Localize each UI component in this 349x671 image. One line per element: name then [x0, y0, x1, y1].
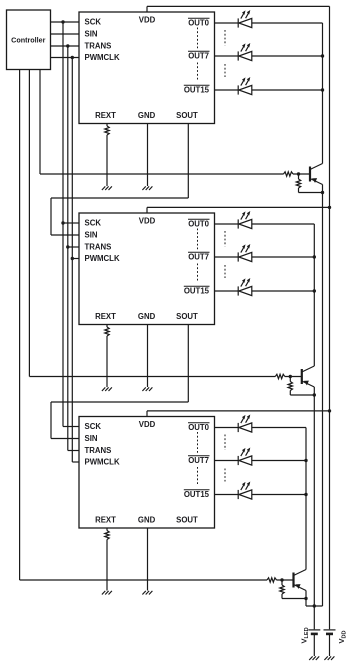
wire SOUT2 to SIN3 vertical [50, 402, 52, 439]
svg-text:OUT7: OUT7 [188, 252, 209, 261]
wire Rbe2 down [289, 391, 291, 396]
wire Q1 emitter down [322, 185, 324, 607]
svg-text:REXT: REXT [95, 312, 116, 321]
svg-text:VLED: VLED [300, 627, 311, 643]
transistor Q3 (PNP) [294, 570, 307, 591]
svg-text:OUT0: OUT0 [188, 18, 209, 27]
wire U1 GND [147, 124, 149, 187]
svg-text:OUT7: OUT7 [188, 51, 209, 60]
wire U3 VDD riser [146, 411, 148, 417]
wire LED D22 anode to rail [252, 290, 314, 292]
wire VDD source to ground [329, 635, 331, 656]
svg-text:PWMCLK: PWMCLK [85, 458, 120, 467]
wire emitter join bar [306, 605, 323, 607]
U3 ellipsis OUT7-OUT15 [197, 467, 199, 486]
LED column ellipsis 2a [224, 231, 226, 247]
U3 OUT0 overline [188, 422, 210, 424]
LED column ellipsis 3b [224, 469, 226, 482]
U1 OUT0 overline [188, 17, 210, 19]
resistor Rbe2 [288, 382, 292, 391]
wire base drive Q3 [20, 579, 267, 581]
wire node to Rbe3 [281, 580, 283, 585]
wire U1 REXT [106, 124, 108, 127]
LED-driver U1 box [79, 12, 215, 124]
svg-text:REXT: REXT [95, 516, 116, 525]
ground U3 GND [142, 591, 145, 595]
LED column ellipsis 3a [224, 435, 226, 451]
wire Rb1 to base [293, 173, 310, 175]
resistor R3ext [105, 531, 109, 540]
svg-text:TRANS: TRANS [85, 446, 112, 455]
node PWMCLK bus junction [71, 56, 74, 59]
wire R1ext to ground [106, 135, 108, 186]
svg-text:SOUT: SOUT [176, 312, 198, 321]
node PWMCLK junction U2 [71, 257, 74, 260]
LED D11 (OUT7) [238, 43, 252, 61]
U2 ellipsis OUT7-OUT15 [197, 264, 199, 283]
wire Rbe2 to emitter [290, 394, 314, 396]
wire U1 VDD riser [146, 6, 148, 12]
wire LED anode rail stage1 [322, 23, 324, 164]
wire Rbe1 down [298, 188, 300, 193]
wire U1 OUT0 to LED [215, 22, 239, 24]
node emitter join [313, 604, 316, 607]
ground U1 GND [142, 186, 145, 190]
svg-text:Controller: Controller [11, 35, 46, 44]
transistor Q2 (PNP) [302, 366, 315, 387]
ground VLED [309, 656, 312, 660]
node VDD rail junction 3 [328, 409, 331, 412]
wire controller TRANS to U1 [51, 45, 80, 47]
U3 OUT7 overline [188, 455, 210, 457]
svg-text:PWMCLK: PWMCLK [85, 53, 120, 62]
wire U2 VDD to rail [147, 206, 330, 208]
wire controller base-drive 2 vertical [28, 70, 30, 377]
wire base drive Q2 [29, 376, 275, 378]
wire U2 OUT7 to LED [215, 256, 239, 258]
controller U0 box [7, 10, 51, 70]
svg-text:VDD: VDD [139, 16, 156, 25]
battery VLED source [308, 630, 320, 634]
wire node to Rbe2 [289, 377, 291, 382]
wire U1 SOUT down [187, 124, 189, 199]
svg-text:SOUT: SOUT [176, 516, 198, 525]
wire Rbe3 down [281, 594, 283, 599]
wire R3ext to ground [106, 540, 108, 591]
wire Rb2 to base [285, 376, 302, 378]
node emitter junction Q3 [304, 597, 307, 600]
wire LED D32 anode to rail [252, 494, 306, 496]
wire controller SCK to U1 [51, 21, 80, 23]
LED D31 (OUT7) [238, 448, 252, 466]
svg-text:VDD: VDD [139, 217, 156, 226]
LED D30 (OUT0) [238, 415, 252, 433]
wire U2 VDD riser [146, 207, 148, 213]
node emitter junction Q2 [313, 393, 316, 396]
wire U3 OUT7 to LED [215, 460, 239, 462]
node base Q1 [297, 172, 300, 175]
wire SCK stub U3 [63, 426, 79, 428]
svg-text:TRANS: TRANS [85, 42, 112, 51]
LED column ellipsis 1a [224, 30, 226, 46]
svg-text:GND: GND [138, 111, 156, 120]
ground VDD [324, 656, 327, 660]
svg-text:OUT0: OUT0 [188, 423, 209, 432]
resistor Rb1 [284, 172, 294, 176]
wire Rbe3 to emitter [282, 598, 306, 600]
resistor Rb3 [267, 578, 277, 582]
wire LED D20 anode to rail [252, 223, 314, 225]
U2 ellipsis OUT0-OUT7 [197, 229, 199, 251]
svg-text:REXT: REXT [95, 111, 116, 120]
wire LED anode rail stage2 [313, 224, 315, 366]
ground U2 REXT [102, 387, 105, 391]
node VDD rail junction 2 [328, 206, 331, 209]
wire U3 OUT15 to LED [215, 494, 239, 496]
svg-text:TRANS: TRANS [85, 243, 112, 252]
svg-text:SIN: SIN [85, 231, 98, 240]
node anode rail junction OUT7 stage2 [313, 255, 316, 258]
wire U3 OUT0 to LED [215, 427, 239, 429]
U1 OUT7 overline [188, 50, 210, 52]
wire SIN stub U2 [51, 234, 79, 236]
node anode rail junction OUT15 stage1 [321, 88, 324, 91]
wire to VLED source [313, 606, 315, 629]
svg-text:SCK: SCK [85, 219, 102, 228]
U3 ellipsis OUT0-OUT7 [197, 432, 199, 454]
node base Q2 [289, 375, 292, 378]
battery VDD source [324, 630, 336, 634]
wire VDD rail [329, 6, 331, 629]
resistor R2ext [105, 327, 109, 336]
svg-text:SIN: SIN [85, 434, 98, 443]
svg-text:PWMCLK: PWMCLK [85, 254, 120, 263]
wire VLED source to ground [313, 635, 315, 656]
node TRANS bus junction [66, 44, 69, 47]
node anode rail junction OUT7 stage1 [321, 54, 324, 57]
wire controller PWMCLK to U1 [51, 57, 80, 59]
LED column ellipsis 2b [224, 265, 226, 278]
LED-driver U2 box [79, 213, 215, 325]
wire U2 GND [147, 325, 149, 388]
wire PWMCLK bus vertical [71, 58, 73, 463]
LED D21 (OUT7) [238, 244, 252, 262]
node TRANS junction U2 [66, 245, 69, 248]
svg-text:GND: GND [138, 312, 156, 321]
svg-text:OUT7: OUT7 [188, 456, 209, 465]
LED-driver U3 box [79, 417, 215, 529]
wire TRANS bus vertical [67, 46, 69, 451]
resistor R1ext [105, 126, 109, 135]
svg-text:VDD: VDD [139, 420, 156, 429]
wire Rb3 to base [277, 579, 294, 581]
resistor Rbe1 [296, 179, 300, 188]
svg-text:SOUT: SOUT [176, 111, 198, 120]
wire U2 SOUT down [187, 325, 189, 403]
LED D20 (OUT0) [238, 211, 252, 229]
node emitter junction Q1 [321, 191, 324, 194]
wire Q3 emitter down [305, 591, 307, 607]
svg-text:GND: GND [138, 516, 156, 525]
svg-text:OUT15: OUT15 [184, 286, 210, 295]
wire SIN stub U3 [51, 438, 79, 440]
wire U1 VDD to rail [147, 5, 330, 7]
resistor Rb2 [275, 374, 285, 378]
wire controller SIN to U1 [51, 33, 80, 35]
wire Rbe1 to emitter [299, 192, 323, 194]
wire U3 REXT [106, 528, 108, 531]
svg-text:OUT15: OUT15 [184, 85, 210, 94]
node anode rail junction OUT15 stage3 [304, 493, 307, 496]
ground U1 REXT [102, 186, 105, 190]
LED D10 (OUT0) [238, 10, 252, 28]
wire LED D30 anode to rail [252, 427, 306, 429]
node SCK bus junction [61, 20, 64, 23]
wire TRANS stub U3 [68, 450, 79, 452]
wire SOUT1 horizontal [51, 197, 188, 199]
wire U3 GND [147, 528, 149, 591]
wire LED D11 anode to rail [252, 55, 323, 57]
LED D12 (OUT15) [238, 77, 252, 95]
wire U2 OUT0 to LED [215, 223, 239, 225]
U3 OUT15 overline [184, 489, 210, 491]
LED D22 (OUT15) [238, 278, 252, 296]
LED column ellipsis 1b [224, 64, 226, 77]
U2 OUT15 overline [184, 285, 210, 287]
node SCK junction U2 [61, 221, 64, 224]
U2 OUT0 overline [188, 218, 210, 220]
U1 ellipsis OUT7-OUT15 [197, 63, 199, 82]
U1 OUT15 overline [184, 84, 210, 86]
node base Q3 [280, 578, 283, 581]
wire LED D21 anode to rail [252, 256, 314, 258]
wire controller base-drive 3 vertical [19, 70, 21, 581]
svg-text:VDD: VDD [337, 630, 348, 643]
node anode rail junction OUT7 stage3 [304, 459, 307, 462]
wire node to Rbe1 [298, 174, 300, 179]
wire SOUT2 horizontal [51, 401, 188, 403]
wire LED D10 anode to rail [252, 22, 323, 24]
U2 OUT7 overline [188, 251, 210, 253]
wire Q2 emitter down [313, 387, 315, 606]
wire U2 REXT [106, 325, 108, 328]
wire U2 OUT15 to LED [215, 290, 239, 292]
wire PWMCLK stub U3 [72, 461, 79, 463]
svg-text:OUT15: OUT15 [184, 490, 210, 499]
wire R2ext to ground [106, 336, 108, 387]
svg-text:SIN: SIN [85, 30, 98, 39]
wire base drive Q1 [40, 173, 284, 175]
wire U1 OUT15 to LED [215, 89, 239, 91]
wire SCK stub U2 [63, 222, 79, 224]
svg-text:OUT0: OUT0 [188, 219, 209, 228]
wire PWMCLK stub U2 [72, 258, 79, 260]
wire SOUT1 to SIN2 vertical [50, 198, 52, 235]
transistor Q1 (PNP) [310, 164, 323, 185]
wire LED D12 anode to rail [252, 89, 323, 91]
wire LED anode rail stage3 [305, 428, 307, 570]
wire SCK bus vertical [62, 22, 64, 427]
wire TRANS stub U2 [68, 246, 79, 248]
ground U2 GND [142, 387, 145, 391]
node anode rail junction OUT15 stage2 [313, 289, 316, 292]
ground U3 REXT [102, 591, 105, 595]
resistor Rbe3 [280, 585, 284, 594]
wire U3 VDD to rail [147, 410, 330, 412]
LED D32 (OUT15) [238, 482, 252, 500]
wire U1 OUT7 to LED [215, 55, 239, 57]
svg-text:SCK: SCK [85, 18, 102, 27]
svg-text:SCK: SCK [85, 422, 102, 431]
wire LED D31 anode to rail [252, 460, 306, 462]
wire controller base-drive 1 vertical [39, 70, 41, 175]
U1 ellipsis OUT0-OUT7 [197, 28, 199, 50]
